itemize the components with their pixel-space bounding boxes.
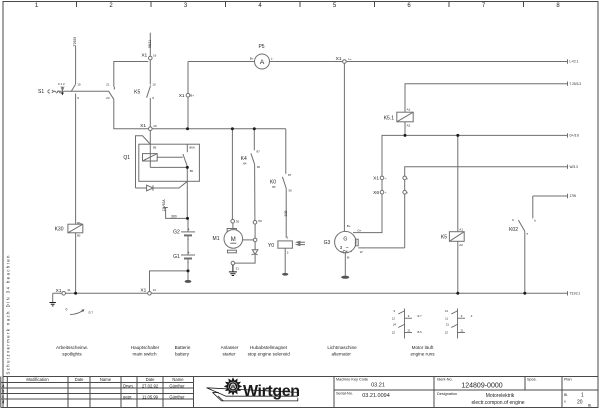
svg-text:A: A (260, 59, 265, 66)
wire top bus (188, 61, 568, 63)
svg-text:16: 16 (153, 54, 157, 58)
svg-text:K4: K4 (241, 156, 247, 162)
wire K02 down (524, 231, 526, 293)
ground (bus left) (50, 303, 56, 306)
svg-text:M: M (231, 237, 236, 243)
contact S1 21/23 (109, 87, 115, 100)
wire G3 B+ riser (343, 63, 345, 231)
title block texts (2, 377, 592, 408)
svg-text:124809-0000: 124809-0000 (461, 383, 502, 390)
svg-text:11.05.99: 11.05.99 (142, 395, 159, 400)
svg-text:L-: L- (271, 57, 274, 61)
svg-text:Drwn.: Drwn. (123, 383, 134, 388)
svg-text:B+: B+ (250, 57, 254, 61)
switch S1 (48, 84, 76, 95)
svg-text:12V92A: 12V92A (162, 199, 166, 212)
svg-text:G2: G2 (173, 229, 180, 235)
wire W riser (405, 167, 568, 248)
svg-text:/3.7: /3.7 (88, 311, 93, 315)
svg-text:22: 22 (392, 331, 396, 335)
wire K02 feed (533, 196, 568, 218)
connector X1 (31 left) (62, 292, 66, 296)
connector 50 (K4) (253, 221, 257, 225)
svg-text:9: 9 (152, 96, 154, 100)
svg-text:Batterie: Batterie (175, 345, 191, 350)
contact K0 (282, 177, 286, 189)
svg-text:11: 11 (445, 316, 448, 320)
svg-text:24: 24 (393, 322, 397, 326)
wire K5.1 top feed (405, 84, 568, 113)
svg-text:Name: Name (100, 377, 112, 382)
svg-text:B+: B+ (190, 94, 194, 98)
svg-text:21: 21 (407, 328, 411, 332)
svg-text:stop engine solenoid: stop engine solenoid (248, 352, 291, 357)
battery G2 (181, 232, 195, 236)
solenoid Y0 (278, 241, 305, 248)
svg-text:K5: K5 (441, 235, 447, 241)
svg-text:9: 9 (408, 314, 410, 318)
svg-text:engine runs: engine runs (410, 352, 435, 357)
svg-text:X1: X1 (179, 93, 185, 99)
svg-text:B+: B+ (347, 224, 351, 228)
svg-text:Hubabstellmagnet: Hubabstellmagnet (250, 345, 288, 350)
relay K5 coil (449, 232, 464, 242)
contact K4 (251, 153, 255, 164)
contact K5 (147, 86, 151, 98)
svg-text:K5.1: K5.1 (384, 115, 395, 121)
svg-text:9: 9 (393, 309, 395, 313)
ruler ticks (77, 2, 524, 8)
svg-text:Hauptschalter: Hauptschalter (131, 345, 160, 350)
svg-text:.3: .3 (470, 314, 473, 318)
connector X1 (31 battery) (148, 292, 152, 296)
svg-text:M1: M1 (213, 236, 220, 242)
pin number labels (58, 54, 537, 292)
wire G3 W lead (358, 247, 405, 249)
connector X1 row (380, 176, 384, 180)
svg-text:W: W (360, 250, 363, 254)
svg-text:<: < (385, 191, 387, 195)
connector X1 (L+) (343, 60, 347, 64)
wire bottom bus 31 (53, 292, 568, 294)
contact cross-ref K5 (451, 309, 465, 339)
svg-text:4: 4 (258, 3, 262, 9)
svg-text:t: t (407, 191, 408, 195)
svg-text:X1: X1 (141, 53, 147, 59)
svg-text:0: 0 (512, 218, 514, 222)
wire K0 branch (285, 129, 287, 238)
svg-text:/65: /65 (272, 185, 276, 189)
svg-text:17W: 17W (570, 194, 577, 198)
svg-text:K5: K5 (134, 90, 140, 96)
wire X1 to Q1 pin85 (149, 131, 151, 145)
svg-text:D+/3.6: D+/3.6 (570, 134, 580, 138)
svg-text:-: - (188, 261, 190, 265)
svg-text:T2925: T2925 (73, 37, 77, 47)
svg-text:A1: A1 (459, 228, 463, 232)
svg-text:b: b (535, 219, 537, 223)
svg-text:battery: battery (175, 352, 190, 357)
wire labels (73, 37, 288, 219)
svg-text:300: 300 (171, 214, 177, 218)
svg-text:Lichtmaschine: Lichtmaschine (327, 345, 357, 350)
svg-text:Bl.: Bl. (564, 393, 568, 397)
svg-text:c: c (2, 394, 4, 399)
svg-text:2: 2 (109, 3, 113, 9)
svg-text:+: + (188, 251, 191, 255)
svg-text:Günther: Günther (169, 395, 185, 400)
svg-text:5: 5 (333, 3, 337, 9)
svg-text:Arbeitsscheinw.: Arbeitsscheinw. (56, 345, 88, 350)
svg-text:30B: 30B (284, 210, 288, 217)
svg-text:Wirtgen: Wirtgen (243, 383, 300, 400)
svg-text:21: 21 (106, 83, 110, 87)
title block (1, 377, 598, 408)
svg-text:T31/2.1: T31/2.1 (570, 292, 581, 296)
svg-text:electr.compon.of engine: electr.compon.of engine (471, 400, 524, 406)
svg-text:alternator: alternator (331, 352, 351, 357)
wire bus 30 (y=128.7) (152, 128, 286, 130)
wire battery negative link (150, 271, 189, 292)
wire bus left ground drop (52, 293, 54, 302)
wire K5.1 down (404, 122, 406, 136)
svg-text:X1: X1 (373, 176, 379, 182)
svg-text:86A: 86A (190, 145, 195, 149)
svg-text:5N21: 5N21 (148, 40, 152, 48)
svg-text:87: 87 (288, 173, 292, 177)
svg-text:3: 3 (184, 3, 188, 9)
svg-text:Anlasser: Anlasser (221, 345, 239, 350)
wire K5 to X1 (149, 98, 151, 127)
connector M1 bottom (231, 261, 235, 265)
svg-text:31: 31 (236, 267, 240, 271)
svg-text:19: 19 (77, 83, 81, 87)
contact cross-ref K5.1 (398, 309, 412, 339)
svg-text:Designation: Designation (437, 392, 457, 396)
ammeter P5 (255, 54, 270, 69)
ground (G3) (341, 276, 349, 279)
svg-text:6: 6 (407, 3, 411, 9)
svg-text:W: W (230, 384, 236, 390)
svg-text:a: a (2, 383, 5, 388)
svg-text:main switch: main switch (133, 352, 157, 357)
relay K5.1 coil (397, 112, 413, 122)
svg-text:85-: 85- (77, 234, 81, 238)
svg-text:a: a (527, 232, 529, 236)
wire K4 branch (253, 129, 256, 250)
svg-text:30: 30 (257, 165, 261, 169)
svg-text:/3.7: /3.7 (417, 314, 422, 318)
wire X1 B+ riser (187, 62, 189, 129)
svg-text:21: 21 (460, 328, 464, 332)
wire T2925 feed (75, 46, 77, 84)
alternator G3 (335, 231, 359, 253)
svg-text:30: 30 (236, 220, 240, 224)
svg-text:D+: D+ (358, 229, 362, 233)
svg-text:12: 12 (392, 316, 396, 320)
svg-text:1: 1 (581, 393, 584, 399)
svg-text:t: t (407, 176, 408, 180)
motor M1 (224, 229, 243, 253)
svg-text:A2: A2 (459, 243, 463, 247)
wire G3 B- to ground (344, 253, 346, 276)
relay Q1 (136, 136, 200, 219)
svg-text:Modification: Modification (26, 377, 49, 382)
caption Arbeitsscheinw. (56, 345, 435, 357)
svg-text:G: G (343, 237, 347, 243)
logo Wirtgen (207, 377, 300, 401)
svg-text:Motorelektrik: Motorelektrik (486, 393, 515, 399)
contact K02 (518, 220, 524, 231)
svg-text:20: 20 (153, 124, 157, 128)
svg-text:Günther: Günther (169, 383, 185, 388)
svg-text:14: 14 (445, 309, 449, 313)
svg-text:X1: X1 (56, 288, 62, 294)
wire M1 branch (231, 129, 234, 229)
right edge terminals (567, 59, 569, 295)
wire battery chain (187, 218, 189, 280)
svg-text:87: 87 (257, 149, 261, 153)
connector X1 (pin20) (149, 127, 153, 131)
svg-text:X6: X6 (373, 190, 379, 196)
svg-text:<: < (385, 176, 387, 180)
svg-text:spotlights: spotlights (62, 352, 82, 357)
svg-text:1: 1 (35, 3, 39, 9)
svg-text:A2: A2 (407, 124, 411, 128)
wire Y0 down to ground (284, 248, 286, 273)
title block top (3, 376, 598, 378)
wire S1 output (57, 90, 109, 92)
svg-text:K30: K30 (55, 227, 64, 233)
svg-text:30: 30 (288, 188, 292, 192)
ground (battery) (185, 280, 192, 283)
svg-text:20: 20 (577, 400, 583, 406)
svg-text:Ident-No.: Ident-No. (437, 378, 453, 382)
svg-text:85: 85 (153, 146, 157, 150)
svg-text:Date: Date (75, 377, 85, 382)
wire 300 stub (163, 208, 188, 219)
svg-text:Name: Name (172, 377, 184, 382)
svg-text:L+/2.1: L+/2.1 (570, 60, 579, 64)
connector X1 top (x=150) (149, 56, 153, 60)
svg-text:Bl.: Bl. (588, 404, 592, 408)
svg-text:7: 7 (482, 3, 486, 9)
svg-text:8: 8 (556, 3, 560, 9)
svg-text:/64: /64 (243, 162, 247, 166)
svg-text:B-: B- (347, 255, 350, 259)
svg-text:86: 86 (190, 169, 194, 173)
wire X1 top feed (149, 33, 151, 57)
svg-text:G1: G1 (173, 254, 180, 260)
wire X1-X6 column left (353, 180, 382, 233)
svg-text:/5.6: /5.6 (417, 330, 422, 334)
svg-text:P5: P5 (258, 44, 264, 50)
svg-text:03.21: 03.21 (371, 383, 385, 389)
ground (Y0) (282, 273, 288, 276)
svg-text:Motor läuft: Motor läuft (412, 345, 434, 350)
svg-text:v.: v. (564, 400, 567, 404)
svg-text:50: 50 (258, 219, 262, 223)
connector 30 (M1) (231, 219, 235, 223)
wire diode to M1 bottom (235, 255, 255, 263)
svg-text:03.21.0094: 03.21.0094 (362, 393, 390, 399)
svg-text:Date: Date (146, 377, 156, 382)
svg-text:b: b (2, 388, 5, 393)
svg-text:31: 31 (67, 288, 71, 292)
svg-text:L+: L+ (348, 57, 352, 61)
svg-text:21: 21 (446, 322, 450, 326)
svg-text:X1: X1 (140, 123, 146, 129)
svg-text:-: - (188, 237, 190, 241)
svg-text:~: ~ (345, 246, 348, 252)
svg-text:22: 22 (445, 331, 449, 335)
svg-text:86+: 86+ (77, 221, 82, 225)
wire K5 loop left branch (114, 99, 149, 128)
svg-text:Serial-No.: Serial-No. (336, 392, 353, 396)
svg-text:27.02.92: 27.02.92 (142, 383, 159, 388)
svg-text:Plan: Plan (564, 378, 572, 382)
svg-text:W/3.3: W/3.3 (570, 165, 579, 169)
connector X6 row (380, 190, 384, 194)
svg-text:Spos.: Spos. (527, 378, 537, 382)
svg-text:Y0: Y0 (268, 243, 274, 249)
wire bus D+ (y=135.4) (382, 135, 568, 178)
svg-text:9: 9 (461, 314, 463, 318)
ground (M1) (229, 265, 237, 276)
svg-text:X1: X1 (140, 288, 146, 294)
connector X1 (B+) (186, 93, 190, 97)
svg-text:S1: S1 (38, 89, 44, 95)
svg-text:G3: G3 (324, 240, 331, 246)
svg-text:Machine Key Code: Machine Key Code (336, 378, 368, 382)
svg-text:+: + (188, 228, 191, 232)
svg-text:Q1: Q1 (123, 155, 130, 161)
schematic text labels (38, 44, 518, 260)
svg-text:A1: A1 (407, 108, 411, 112)
svg-text:1: 1 (287, 236, 289, 240)
relay K30 coil (68, 224, 83, 233)
svg-text:K02: K02 (509, 227, 518, 233)
svg-text:starter: starter (222, 352, 235, 357)
connector M1 right (253, 238, 257, 242)
svg-text:K0: K0 (270, 180, 276, 186)
svg-text:23: 23 (106, 96, 110, 100)
svg-text:X1: X1 (336, 56, 342, 62)
svg-text:gepr.: gepr. (123, 395, 132, 400)
svg-text:d: d (2, 399, 5, 404)
svg-text:7.25/3.3: 7.25/3.3 (570, 82, 582, 86)
svg-text:9: 9 (77, 96, 79, 100)
battery G1 (181, 255, 195, 259)
svg-text:Schutzvermerk nach DIN 34 beac: Schutzvermerk nach DIN 34 beachten (6, 255, 11, 375)
contact cross-ref K30 (bottom left) (66, 308, 94, 315)
wire M1 to connector (243, 239, 254, 241)
svg-text:31: 31 (153, 288, 157, 292)
wire K30 feeds (75, 94, 77, 294)
svg-text:0: 0 (66, 308, 68, 312)
svg-text:2: 2 (287, 250, 289, 254)
svg-text:10: 10 (152, 83, 156, 87)
diode (M1 aux) (252, 250, 258, 255)
wire K5 coil column (457, 135, 459, 293)
svg-text:0 1 2: 0 1 2 (58, 82, 65, 86)
ruler numbers (35, 3, 561, 9)
